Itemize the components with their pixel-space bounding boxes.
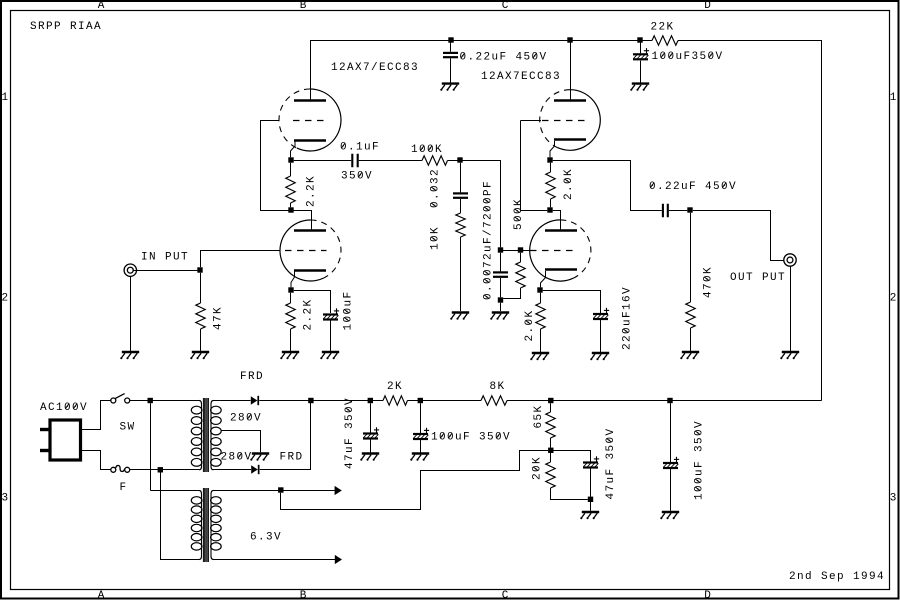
svg-text:3: 3 [890, 493, 897, 505]
wire T2a plate lead [570, 40, 572, 100]
wire cathode to 220uF cap [543, 291, 601, 314]
svg-text:470K: 470K [703, 267, 715, 298]
wire to 2.2K cathode resistor [290, 293, 292, 303]
svg-text:0.032: 0.032 [430, 169, 442, 208]
resistor 10K [456, 213, 465, 237]
label 100uF vertical [343, 292, 355, 331]
node stage2 grid 500K [518, 247, 523, 252]
svg-text:FRD: FRD [240, 371, 263, 383]
resistor 65K [546, 412, 555, 438]
resistor 20K [546, 462, 555, 488]
jack IN PUT [124, 264, 136, 276]
node RIAA network junction [457, 157, 462, 162]
wire diode to B+ rail [259, 400, 383, 402]
node input junction [197, 267, 202, 272]
transformer T1 HV primary coil [199, 401, 202, 405]
wire 100uF to ground [670, 469, 672, 511]
capacitor 47uF 350V divider [583, 456, 599, 467]
svg-text:F: F [120, 482, 127, 494]
resistor 47K [196, 303, 205, 329]
wire T2b cathode lead [541, 271, 546, 287]
wire cap to node [669, 210, 687, 212]
transformer T2 core [202, 488, 204, 562]
node plate rail / 100uF350V [637, 37, 642, 42]
wire 100uF to ground [330, 321, 332, 352]
node plate rail / T2a plate [567, 37, 572, 42]
diode FRD bottom [251, 465, 259, 474]
ground 220uF16V [590, 353, 609, 360]
node switch output [148, 398, 153, 403]
svg-text:2: 2 [1, 292, 8, 304]
ground 47K [190, 352, 209, 359]
node fuse output [158, 467, 163, 472]
label 47uF 350V vertical [344, 398, 356, 469]
wire output to 0.1uF [294, 160, 352, 162]
ground input jack [120, 352, 139, 359]
svg-text:1: 1 [890, 92, 897, 104]
wire to 100uF350V cap [640, 40, 642, 53]
wire 100uF to ground [420, 440, 422, 453]
node rectifier output [308, 398, 313, 403]
wire T2b plate lead [553, 211, 561, 231]
wire 20K bottom to cap node [551, 488, 588, 500]
ground 100uF [320, 352, 339, 359]
wire node to 0.032 cap [460, 163, 462, 193]
node 65K top [548, 398, 553, 403]
resistor 2.0K (cathode) [536, 303, 545, 329]
wire T1a plate lead [310, 40, 312, 100]
svg-text:65K: 65K [533, 406, 545, 429]
arrow 6.3V bottom [335, 555, 342, 564]
svg-text:0.1uF: 0.1uF [340, 142, 379, 154]
node stage2 grid signal [498, 247, 503, 252]
capacitor 100uF350V [633, 48, 649, 59]
wire to 2.2K upper [290, 163, 292, 176]
svg-text:6.3V: 6.3V [250, 532, 281, 544]
triode T2b (lower 12AX7 2nd stage) [530, 220, 591, 281]
capacitor 0.22uF 450V (stage1 decoupling) [443, 53, 458, 57]
label 0.0072uF/7200PF vertical [483, 181, 495, 300]
ground 2.0K cathode [530, 353, 549, 360]
label 500K vertical [513, 199, 525, 230]
wire fuse to transformer primary bottom [130, 469, 199, 471]
capacitor 100uF cathode bypass [323, 308, 339, 319]
wire node to 470K [690, 213, 692, 302]
wire input jack to node [134, 270, 198, 272]
wire 47uF to bottom node [590, 469, 592, 497]
transformer T2 heater secondary coil [211, 491, 214, 495]
ground 2.2K cathode [280, 352, 299, 359]
svg-text:12AX7ECC83: 12AX7ECC83 [481, 71, 560, 83]
svg-text:3: 3 [1, 493, 8, 505]
wire T1b cathode lead [291, 272, 295, 288]
ground 100uF filter [410, 454, 429, 461]
diode FRD top [251, 396, 259, 405]
wire 2K to 8K [408, 400, 482, 402]
wire grid lead [501, 250, 531, 252]
svg-text:2nd Sep 1994: 2nd Sep 1994 [789, 571, 884, 583]
capacitor 0.0072uF/7200PF [493, 272, 508, 276]
jack OUT PUT [784, 254, 796, 266]
svg-text:100uF: 100uF [343, 292, 355, 331]
wire T2a grid lead [521, 120, 542, 122]
resistor 470K [686, 302, 695, 328]
label 47uF 350V divider vertical [605, 429, 617, 500]
resistor 100K [422, 156, 448, 165]
ground output jack [780, 352, 799, 359]
svg-text:2K: 2K [387, 381, 402, 393]
svg-text:1: 1 [1, 92, 8, 104]
svg-text:8K: 8K [490, 381, 505, 393]
wire to 2.0K cathode [540, 293, 542, 303]
transformer T1 HV secondary coil [211, 401, 214, 405]
label 47K vertical [213, 307, 225, 330]
wire plug to switch [82, 401, 111, 430]
svg-text:B: B [300, 0, 307, 12]
wire secondary bottom to diode [214, 469, 252, 471]
wire 0.1uF to 100K [359, 160, 422, 162]
svg-text:100K: 100K [411, 144, 442, 156]
wire 65K to divider node [550, 438, 552, 448]
svg-text:FRD: FRD [280, 452, 303, 464]
transformer T1 core [202, 398, 204, 472]
wire 6.3V top [214, 490, 335, 492]
wire T2a cathode lead [550, 141, 555, 157]
svg-text:C: C [502, 0, 509, 12]
capacitor 100uF 350V filter [413, 428, 429, 439]
label 470K vertical [703, 267, 715, 298]
wire to T1b grid [200, 250, 280, 252]
wire 470K to ground [690, 328, 692, 351]
wire T1b plate lead [311, 210, 313, 230]
node 100uF last filter [667, 398, 672, 403]
wire node to 20K [550, 453, 552, 462]
wire input jack to ground [130, 277, 132, 351]
node heater bias tap [278, 487, 283, 492]
label 20K vertical [532, 457, 544, 480]
wire 0.032 to 10K [460, 199, 462, 213]
svg-text:280V: 280V [221, 452, 252, 464]
label 2.0K cathode vertical [524, 311, 536, 342]
wire to 47uF cap [370, 403, 372, 432]
node 47uF filter [368, 398, 373, 403]
capacitor 220uF16V [593, 308, 609, 319]
wire 2.2K to ground [290, 329, 292, 351]
svg-text:350V: 350V [341, 171, 372, 183]
wire T1a cathode lead [291, 142, 296, 158]
svg-text:2.0K: 2.0K [563, 169, 575, 200]
wire heater bias from divider [284, 451, 549, 510]
wire B+ rail right [507, 400, 822, 402]
arrow 6.3V top [335, 486, 342, 495]
label 2.2K vertical [306, 176, 318, 207]
wire T2a grid down to T2b plate node [521, 121, 548, 211]
wire plug to fuse [82, 451, 111, 470]
svg-text:D: D [704, 590, 711, 600]
capacitor 47uF 350V filter [363, 427, 379, 438]
ground 10K branch [450, 313, 469, 320]
wire cathode to 100uF cap [294, 291, 331, 314]
svg-text:A: A [98, 590, 105, 600]
node 100uF filter [418, 398, 423, 403]
node output junction [687, 207, 692, 212]
wire heater bias riser [281, 493, 284, 510]
node T1a cathode junction [288, 157, 293, 162]
switch SW [111, 394, 130, 403]
wire grid node to 0.0072uF [500, 253, 502, 272]
wire T1a grid lead [260, 120, 280, 122]
svg-text:47K: 47K [213, 307, 225, 330]
svg-text:B: B [300, 590, 307, 600]
label 2.0K vertical [563, 169, 575, 200]
wire grid node to 500K [520, 253, 522, 262]
ground 100uF350V [630, 84, 649, 91]
node T2b cathode junction [537, 287, 542, 292]
transformer T2 heater primary coil [199, 491, 202, 495]
wire to 2.0K upper [550, 163, 552, 172]
wire 2.0K to ground [540, 329, 542, 352]
svg-text:12AX7/ECC83: 12AX7/ECC83 [331, 62, 418, 74]
svg-text:2.0K: 2.0K [524, 311, 536, 342]
node T2b plate junction [547, 207, 552, 212]
wire 0.22uF to ground [450, 58, 452, 82]
wire T2a cathode to output cap [553, 161, 662, 211]
node T1b cathode junction [288, 287, 293, 292]
resistor 2.2K (SRPP upper) [286, 176, 295, 203]
wire switch to transformer primary [130, 400, 199, 402]
wire T1a grid to T1b plate node [261, 120, 312, 211]
wire 10K to ground [460, 237, 462, 311]
wire secondary top to diode [214, 400, 251, 402]
wire 100uF350V to ground [640, 61, 642, 83]
svg-text:A: A [98, 0, 105, 12]
wire plate rail right + right riser [678, 41, 822, 401]
capacitor 0.1uF 350V coupling [352, 154, 357, 168]
svg-text:D: D [704, 0, 711, 12]
wire 6.3V bottom [214, 559, 336, 561]
svg-text:220uF16V: 220uF16V [622, 287, 634, 350]
label 65K vertical [533, 406, 545, 429]
wire to 0.22uF cap [450, 40, 452, 52]
node 2.2K bottom junction [288, 207, 293, 212]
wire 0.0072uF to bottom node [500, 278, 502, 297]
wire node to 47K [200, 273, 202, 303]
wire node to output jack [693, 211, 784, 261]
capacitor 0.032 [453, 193, 468, 197]
ground 100uF last [660, 512, 679, 519]
resistor 500K [516, 262, 525, 288]
wire switch node down to T2 primary [150, 403, 152, 490]
wire to 100uF cap [670, 403, 672, 462]
wire bottom diode to rectifier node [260, 401, 311, 470]
svg-text:10K: 10K [430, 227, 442, 250]
wire 100K to stage2 grid node [448, 161, 501, 248]
AC plug [50, 420, 81, 460]
ground 470K [680, 352, 699, 359]
wire node up to grid line [200, 250, 202, 267]
label 2.2K cathode vertical [303, 300, 315, 331]
svg-text:AC100V: AC100V [40, 402, 87, 414]
node 47uF/20K bottom [588, 497, 593, 502]
label 100uF 350V last vertical [694, 421, 706, 500]
label 0.032 vertical [430, 169, 442, 208]
svg-text:2.2K: 2.2K [303, 300, 315, 331]
label 10K vertical [430, 227, 442, 250]
capacitor 100uF 350V last [663, 457, 679, 468]
svg-text:2.2K: 2.2K [306, 176, 318, 207]
node divider 65K/20K [548, 448, 553, 453]
node plate rail / 0.22uF [448, 37, 453, 42]
ground 0.22uF [440, 84, 459, 91]
svg-text:SRPP RIAA: SRPP RIAA [30, 21, 101, 33]
wire divider node to 47uF cap [554, 451, 591, 462]
node 0.0072uF bottom [498, 297, 503, 302]
wire to 100uF cap [420, 403, 422, 433]
wire node to ground [590, 502, 592, 511]
fuse F [111, 465, 130, 472]
ground center tap [250, 454, 269, 461]
resistor 2.0K (SRPP upper) [546, 172, 555, 199]
svg-text:C: C [502, 590, 509, 600]
node T2a cathode junction [547, 157, 552, 162]
wire T2 primary top [150, 490, 199, 492]
label 220uF16V vertical [622, 287, 634, 350]
svg-text:IN PUT: IN PUT [141, 252, 188, 264]
wire to 65K [550, 403, 552, 412]
wire node to ground [500, 303, 502, 311]
triode T1a (upper 12AX7) [279, 89, 341, 151]
ground 0.0072uF branch [490, 313, 509, 320]
svg-text:100uF 350V: 100uF 350V [431, 432, 510, 444]
svg-text:20K: 20K [532, 457, 544, 480]
wire output jack to ground [790, 266, 792, 351]
ground divider [580, 512, 599, 519]
wire 500K to bottom node [503, 288, 520, 299]
svg-text:500K: 500K [513, 199, 525, 230]
resistor 2.2K (cathode) [286, 303, 295, 329]
resistor 22K [652, 36, 678, 45]
resistor 8K [481, 396, 507, 405]
svg-text:SW: SW [120, 421, 135, 433]
capacitor 0.22uF 450V output [663, 204, 668, 218]
triode T1b (lower 12AX7) [280, 220, 341, 281]
wire 47K to ground [200, 329, 202, 351]
wire plate rail left [310, 40, 652, 42]
svg-text:22K: 22K [651, 21, 674, 33]
wire 47uF to ground [370, 440, 372, 453]
wire T2 primary bottom to fuse node [161, 473, 200, 560]
resistor 2K [383, 396, 408, 405]
ground 47uF [360, 454, 379, 461]
svg-text:280V: 280V [230, 413, 261, 425]
svg-text:100uF 350V: 100uF 350V [694, 421, 706, 500]
svg-text:2: 2 [890, 292, 897, 304]
wire 220uF to ground [600, 320, 602, 352]
triode T2a (upper 12AX7 2nd stage) [540, 90, 601, 151]
wire 2.2K to node [290, 203, 292, 207]
wire 2.0K to node [550, 199, 552, 207]
wire center tap to ground [221, 431, 261, 453]
